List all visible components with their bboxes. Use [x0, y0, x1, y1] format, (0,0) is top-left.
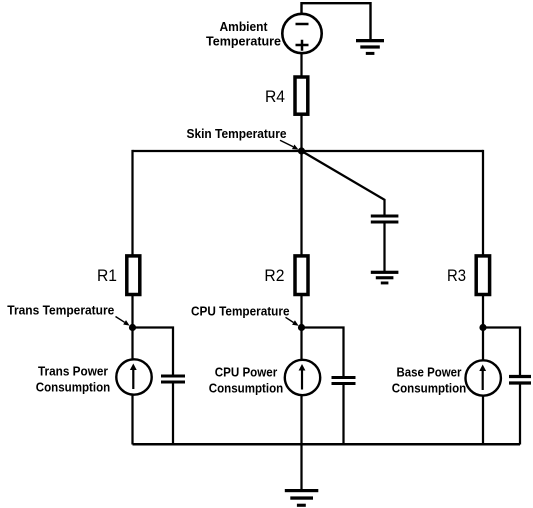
svg-text:CPU Power: CPU Power [215, 366, 278, 380]
capacitor C2 [332, 378, 356, 384]
label Base Power Consumption [392, 366, 467, 396]
wire C2 to rail [342, 385, 344, 444]
wire left branch top [131, 150, 133, 255]
ground (skin cap) [371, 271, 399, 285]
wire R2 to cpu node [300, 294, 302, 359]
svg-text:R2: R2 [264, 267, 284, 285]
resistor R1 [127, 256, 140, 295]
wire bottom rail [133, 443, 521, 446]
svg-text:Consumption: Consumption [392, 382, 467, 396]
label CPU Power Consumption [209, 366, 284, 396]
ground (bottom) [285, 489, 319, 507]
wire I3 to rail [482, 396, 484, 444]
svg-text:Trans Temperature: Trans Temperature [7, 304, 114, 318]
wire V1 to R4 [300, 54, 302, 76]
svg-text:Consumption: Consumption [36, 380, 111, 394]
current source I3 [466, 360, 501, 395]
resistor R4 [295, 77, 308, 114]
wire C4 to ground [383, 224, 385, 272]
wire I1 to rail [131, 395, 133, 444]
current source I1 [116, 359, 151, 394]
wire skin horizontal [133, 150, 484, 152]
ground (top right) [356, 39, 384, 55]
svg-text:R3: R3 [447, 267, 466, 285]
svg-text:Trans Power: Trans Power [38, 365, 108, 379]
label Skin Temperature [187, 127, 299, 149]
label Ambient Temperature [206, 20, 281, 49]
label CPU Temperature [191, 305, 299, 326]
current source I2 [285, 360, 320, 395]
wire cpu node to C2 [302, 328, 344, 378]
resistor R3 [476, 256, 489, 295]
svg-text:R1: R1 [97, 267, 117, 285]
wire base node to C3 [483, 328, 520, 376]
wire I2 to rail and ground stem [300, 396, 302, 489]
svg-text:Ambient: Ambient [220, 20, 269, 34]
node Skin Temperature [298, 147, 305, 154]
svg-text:Base Power: Base Power [397, 366, 462, 380]
svg-text:CPU Temperature: CPU Temperature [191, 305, 290, 319]
capacitor C3 [509, 377, 531, 384]
svg-text:Temperature: Temperature [206, 35, 281, 49]
node Trans Temperature [129, 324, 136, 331]
wire R3 to base node [482, 294, 484, 360]
label Trans Temperature [7, 304, 129, 326]
svg-text:Consumption: Consumption [209, 381, 284, 395]
wire trans node to C1 [133, 328, 174, 376]
wire R1 to trans node [131, 294, 133, 359]
svg-text:Skin Temperature: Skin Temperature [187, 127, 287, 141]
capacitor C4 (skin) [371, 216, 399, 222]
voltage source V1 Ambient Temperature [282, 14, 321, 53]
svg-text:R4: R4 [265, 88, 285, 106]
wire R4 to skin node [300, 114, 302, 151]
node CPU Temperature [298, 324, 305, 331]
wire diagonal skin node to capacitor [302, 151, 385, 215]
wire C1 to rail [172, 384, 174, 445]
wire C3 to rail [519, 385, 521, 445]
wire top from source to ground [302, 3, 371, 39]
wire middle branch top [300, 151, 302, 255]
capacitor C1 [161, 376, 185, 382]
node base [479, 324, 486, 331]
label Trans Power Consumption [36, 365, 111, 395]
wire right branch top [482, 150, 484, 255]
resistor R2 [295, 256, 308, 295]
